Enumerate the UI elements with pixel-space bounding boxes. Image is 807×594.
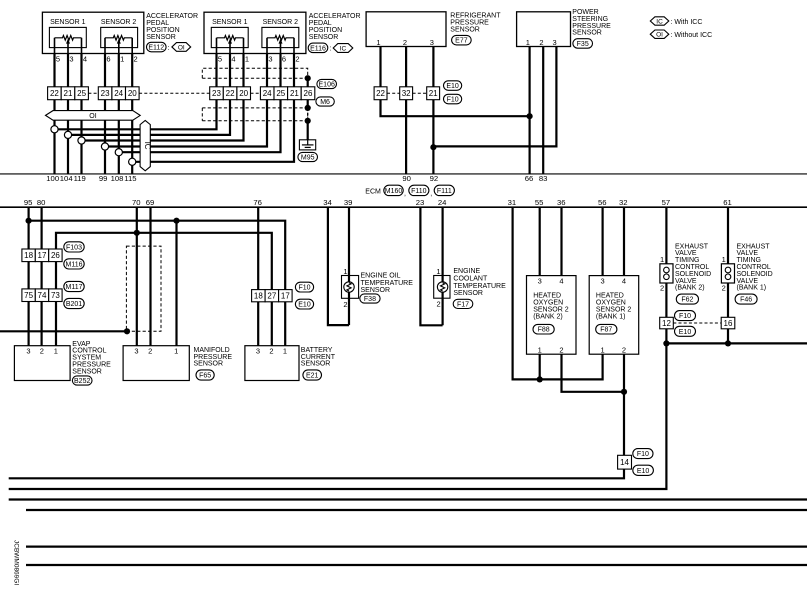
svg-text:80: 80 xyxy=(37,198,46,207)
wire ECM 31 to HO2S ground xyxy=(513,207,603,379)
svg-text:32: 32 xyxy=(619,198,628,207)
wire ECM 36 to F88 pin 4 xyxy=(560,207,562,275)
svg-text:26: 26 xyxy=(304,89,313,98)
svg-text:F17: F17 xyxy=(457,301,469,308)
wire E116 pin 2 via splice to ECM xyxy=(132,54,294,162)
svg-text:3: 3 xyxy=(601,277,605,286)
wire ECM 69 to manifold pin 2 xyxy=(149,207,151,346)
variant tag OI at E112 xyxy=(172,43,191,52)
label ECM connector refs xyxy=(365,185,454,197)
wire F87 pin 2 to connector 14 and bottom bus xyxy=(9,354,624,478)
svg-text:4: 4 xyxy=(622,277,626,286)
junction dot node A at manifold pin 1 xyxy=(173,218,179,224)
legend OI without ICC xyxy=(650,30,712,39)
connector ref F17 oval xyxy=(453,299,473,308)
label POWER STEERING PRESSURE SENSOR xyxy=(572,9,611,36)
svg-text:2: 2 xyxy=(722,283,726,292)
wire E112 pin 3 to ECM 104 xyxy=(67,54,69,174)
svg-text:66: 66 xyxy=(525,174,534,183)
svg-text:SENSOR: SENSOR xyxy=(301,361,331,368)
splice circle on wire to ECM 119 xyxy=(78,137,85,144)
accelerator pedal position sensor E112 xyxy=(42,12,143,53)
svg-text:31: 31 xyxy=(508,198,517,207)
svg-text:E116: E116 xyxy=(310,45,326,52)
splice circle on wire to ECM 99 xyxy=(101,143,108,150)
svg-text:JCBWM0869GI: JCBWM0869GI xyxy=(13,540,20,585)
svg-text:F10: F10 xyxy=(637,451,649,458)
svg-text:36: 36 xyxy=(557,198,566,207)
svg-text:F110: F110 xyxy=(411,188,427,195)
connector 12 xyxy=(660,317,674,329)
heated oxygen sensor 2 bank 2 F88 xyxy=(527,276,577,355)
svg-text:3: 3 xyxy=(553,38,557,47)
wire ECM 34 to F38 pin 2 xyxy=(328,207,349,325)
dashed link E77 22-32 xyxy=(387,92,400,94)
svg-text:E77: E77 xyxy=(455,38,468,45)
svg-text:21: 21 xyxy=(290,89,299,98)
svg-text:OI: OI xyxy=(89,113,96,120)
dashed link E77 32-21 xyxy=(413,92,427,94)
wire E116 pin 6 via splice to ECM xyxy=(119,54,281,153)
ECM lower row line xyxy=(0,206,807,208)
svg-text:27: 27 xyxy=(267,292,276,301)
connector ref F10 oval (E77) xyxy=(444,94,462,104)
wire E112 pin 5 to ECM 100 xyxy=(53,54,55,174)
wire ECM 39 through F38 pin 1 xyxy=(348,207,350,325)
svg-text:18: 18 xyxy=(24,251,33,260)
potentiometer E112 sensor 2 xyxy=(105,36,132,54)
wire ECM 32 to F87 pin 4 xyxy=(623,207,625,275)
wire F35 pin 2 to ECM 83 xyxy=(542,47,544,174)
wire E77 pin 2 to ECM 90 xyxy=(405,47,407,174)
svg-text:56: 56 xyxy=(598,198,607,207)
wire E116 pin 5 via splice to ECM xyxy=(55,54,217,130)
potentiometer E116 sensor 2 xyxy=(267,36,294,54)
svg-text:M160: M160 xyxy=(385,188,403,195)
svg-text:IC: IC xyxy=(143,142,152,150)
svg-text:E10: E10 xyxy=(679,329,692,336)
svg-text:E112: E112 xyxy=(148,45,164,52)
svg-text:108: 108 xyxy=(111,174,124,183)
connector ref F46 oval xyxy=(735,294,757,304)
connector ref F38 oval xyxy=(360,294,380,303)
svg-text:1: 1 xyxy=(376,38,380,47)
svg-text:F10: F10 xyxy=(447,97,459,104)
wire E112 pin 4 to ECM 119 xyxy=(80,54,82,174)
connector ref F10 oval (12) xyxy=(675,311,696,321)
svg-text:M117: M117 xyxy=(66,284,83,291)
svg-text:25: 25 xyxy=(276,89,285,98)
wire E116 pin 1 via splice to ECM xyxy=(82,54,244,141)
svg-text:COOLANT: COOLANT xyxy=(453,276,488,283)
junction dot node B at 70 xyxy=(134,230,140,236)
svg-text:3: 3 xyxy=(538,277,542,286)
svg-text:ECM: ECM xyxy=(365,188,381,195)
diagram id JCBWM0869GI xyxy=(13,540,20,585)
svg-text:F10: F10 xyxy=(679,313,691,320)
svg-text:E10: E10 xyxy=(298,302,311,309)
svg-text:2: 2 xyxy=(148,346,152,355)
label ECM lower pins xyxy=(24,198,732,207)
label E112 pins 5 3 4 6 1 2 xyxy=(56,54,138,63)
connector ref E10 oval (14) xyxy=(633,465,654,475)
engine coolant temperature sensor F17 xyxy=(434,267,450,309)
engine oil temperature sensor F38 xyxy=(342,267,359,309)
wire ECM 57 to F62 and junction xyxy=(665,207,667,343)
dashed option harness box 2 (M6) xyxy=(202,108,307,121)
svg-text:32: 32 xyxy=(402,89,411,98)
svg-text:SENSOR 1: SENSOR 1 xyxy=(50,19,86,26)
svg-text:: With ICC: : With ICC xyxy=(671,19,703,26)
connector ref M117 oval xyxy=(64,281,84,291)
potentiometer E116 sensor 1 xyxy=(217,36,244,54)
variant tag IC at E116 xyxy=(333,44,353,53)
wire F88 pin 1 down xyxy=(539,354,541,379)
label EVAP CONTROL SYSTEM PRESSURE SENSOR xyxy=(72,341,111,376)
svg-text:17: 17 xyxy=(281,292,290,301)
exhaust valve timing control solenoid valve bank 2 F62 xyxy=(660,255,673,293)
connector ref E10 oval (battery) xyxy=(295,299,313,309)
svg-text:,: , xyxy=(430,190,432,197)
svg-text:1: 1 xyxy=(601,345,605,354)
wire E112 pin 2 to ECM 115 xyxy=(131,54,133,174)
svg-text:18: 18 xyxy=(254,292,263,301)
svg-text:SENSOR: SENSOR xyxy=(72,368,102,375)
variant band IC xyxy=(140,120,152,170)
svg-text:2: 2 xyxy=(295,54,299,63)
svg-text:21: 21 xyxy=(429,89,438,98)
junction dot M6 harness upper xyxy=(305,105,311,111)
svg-text:F111: F111 xyxy=(437,188,452,195)
svg-text:ENGINE: ENGINE xyxy=(453,268,480,275)
svg-text:104: 104 xyxy=(60,174,74,183)
svg-text:1: 1 xyxy=(54,346,58,355)
wire E112 pin 6 to ECM 99 xyxy=(104,54,106,174)
svg-text:SENSOR 1: SENSOR 1 xyxy=(212,19,248,26)
svg-text:(BANK 1): (BANK 1) xyxy=(596,313,626,320)
manifold pressure sensor F65 xyxy=(123,346,189,381)
svg-text:4: 4 xyxy=(83,54,87,63)
svg-text:3: 3 xyxy=(69,54,73,63)
junction dot E106 harness xyxy=(305,75,311,81)
svg-text:1: 1 xyxy=(660,255,664,264)
svg-text:F87: F87 xyxy=(600,327,612,334)
junction dot node A at 95 xyxy=(26,218,32,224)
connector row E116 24 25 21 26 xyxy=(260,87,314,100)
svg-text:3: 3 xyxy=(256,346,260,355)
svg-text:1: 1 xyxy=(343,267,347,276)
svg-text:2: 2 xyxy=(559,345,563,354)
label REFRIGERANT PRESSURE SENSOR xyxy=(450,12,501,33)
svg-text:ENGINE OIL: ENGINE OIL xyxy=(361,273,401,280)
svg-text:F10: F10 xyxy=(298,285,310,292)
svg-text:14: 14 xyxy=(620,458,629,467)
svg-text:22: 22 xyxy=(50,89,59,98)
svg-text:26: 26 xyxy=(51,251,60,260)
connector ref F65 oval xyxy=(196,370,214,380)
connector row EVAP 75 74 73 xyxy=(22,289,62,302)
wire junction to bottom bus xyxy=(9,343,667,489)
wire ECM 95 to EVAP pin 3 xyxy=(28,207,30,346)
splice circle on wire to ECM 104 xyxy=(64,131,71,138)
svg-text:83: 83 xyxy=(539,174,548,183)
connector ref E116 oval xyxy=(308,43,331,53)
junction dot solenoid bus at 57 xyxy=(663,340,669,346)
svg-text:F65: F65 xyxy=(199,373,211,380)
svg-text:75: 75 xyxy=(24,291,33,300)
wire ECM 55 to F88 pin 3 xyxy=(539,207,541,275)
wire node A to battery sensor pin 1 xyxy=(29,221,286,346)
connector row E112 23 24 20 xyxy=(98,87,139,100)
label ECM pins 100 104 119 99 108 115 xyxy=(46,174,136,183)
svg-text:B201: B201 xyxy=(66,301,82,308)
dashed connector link E116 xyxy=(251,92,261,94)
svg-text:SENSOR 2: SENSOR 2 xyxy=(263,19,299,26)
svg-text:2: 2 xyxy=(40,346,44,355)
svg-text:2: 2 xyxy=(660,283,664,292)
svg-text:3: 3 xyxy=(134,346,138,355)
EVAP control system pressure sensor B252 xyxy=(14,346,70,381)
splice circle on wire to ECM 115 xyxy=(129,158,136,165)
svg-text:73: 73 xyxy=(51,291,60,300)
wire ECM 56 to F87 pin 3 xyxy=(601,207,603,275)
svg-text:SENSOR: SENSOR xyxy=(450,26,480,33)
svg-text:3: 3 xyxy=(430,38,434,47)
junction dot HO2S heater ground xyxy=(621,389,627,395)
wire E77 pin 1 to node 66 xyxy=(381,47,530,117)
heated oxygen sensor 2 bank 1 F87 xyxy=(589,276,639,355)
svg-text:(BANK 2): (BANK 2) xyxy=(533,313,563,320)
label ENGINE COOLANT TEMPERATURE SENSOR xyxy=(453,268,506,297)
svg-text:119: 119 xyxy=(74,174,86,183)
junction dot node 92 xyxy=(430,144,436,150)
wire E77 pin 3 to ECM 92 xyxy=(432,47,434,174)
svg-text:95: 95 xyxy=(24,198,33,207)
svg-text:F62: F62 xyxy=(681,297,693,304)
junction dot M6 harness lower xyxy=(305,118,311,124)
svg-text:24: 24 xyxy=(263,89,272,98)
splice circle on wire to ECM 108 xyxy=(115,149,122,156)
svg-text:OI: OI xyxy=(178,44,185,51)
svg-text:B252: B252 xyxy=(74,378,90,385)
svg-text:F38: F38 xyxy=(364,296,376,303)
svg-text:2: 2 xyxy=(343,300,347,309)
svg-text:M95: M95 xyxy=(301,155,315,162)
svg-text:PEDAL: PEDAL xyxy=(146,20,169,27)
svg-text::: : xyxy=(329,46,331,53)
svg-text:61: 61 xyxy=(723,198,732,207)
svg-text:23: 23 xyxy=(101,89,110,98)
svg-text:22: 22 xyxy=(226,89,235,98)
svg-text:SENSOR: SENSOR xyxy=(572,30,602,37)
svg-text:17: 17 xyxy=(38,251,47,260)
junction dot solenoid bus at 61 xyxy=(725,340,731,346)
potentiometer E112 sensor 1 xyxy=(55,36,82,54)
svg-text:5: 5 xyxy=(218,54,222,63)
wire E112 pin 1 to ECM 108 xyxy=(118,54,120,174)
dashed connector link E112 xyxy=(88,92,98,94)
svg-text:4: 4 xyxy=(231,54,235,63)
junction dot at option box xyxy=(124,328,130,334)
svg-text:34: 34 xyxy=(323,198,332,207)
svg-text:IC: IC xyxy=(656,18,663,25)
svg-text:90: 90 xyxy=(402,174,411,183)
dashed option harness box 1 (E106) xyxy=(202,68,307,78)
label MANIFOLD PRESSURE SENSOR xyxy=(194,347,233,368)
svg-text:ACCELERATOR: ACCELERATOR xyxy=(146,13,198,20)
power steering pressure sensor F35 xyxy=(517,12,571,47)
wire ECM 23 to F17 pin 2 xyxy=(420,207,442,325)
variant band OI xyxy=(46,111,141,121)
svg-text:2: 2 xyxy=(269,346,273,355)
label ECM pins 90 92 66 83 xyxy=(402,174,547,183)
wire F35 pin 3 to node 92 xyxy=(433,47,556,147)
label ACCELERATOR PEDAL POSITION SENSOR (E112) xyxy=(146,13,198,41)
connector ref E21 oval xyxy=(303,370,322,380)
svg-text:SENSOR: SENSOR xyxy=(194,361,224,368)
svg-text:76: 76 xyxy=(253,198,262,207)
refrigerant pressure sensor E77 xyxy=(366,12,446,47)
svg-text:1: 1 xyxy=(722,255,726,264)
svg-text:3: 3 xyxy=(26,346,30,355)
connector 14 xyxy=(618,455,632,469)
svg-text:E21: E21 xyxy=(306,373,319,380)
svg-text:57: 57 xyxy=(662,198,671,207)
connector row battery 18 27 17 xyxy=(252,290,293,302)
svg-text:115: 115 xyxy=(124,174,136,183)
label EXHAUST VALVE TIMING CONTROL SOLENOID VALVE (BANK 1) xyxy=(737,243,773,291)
svg-text:100: 100 xyxy=(46,174,59,183)
svg-text:2: 2 xyxy=(539,38,543,47)
splice circle on wire to ECM 100 xyxy=(51,126,58,133)
svg-text:55: 55 xyxy=(535,198,544,207)
svg-text:: Without ICC: : Without ICC xyxy=(671,32,713,39)
svg-text:12: 12 xyxy=(662,319,671,328)
connector ref F10 oval (battery) xyxy=(295,282,313,292)
connector ref B252 oval xyxy=(72,376,92,385)
connector 16 xyxy=(721,317,735,329)
svg-text:PEDAL: PEDAL xyxy=(309,20,332,27)
wire ECM 76 to battery sensor pin 3 xyxy=(257,207,259,346)
svg-text:1: 1 xyxy=(174,346,178,355)
connector row E77 22 32 21 xyxy=(374,87,440,100)
label E116 pins 5 4 1 3 6 2 xyxy=(218,54,300,63)
svg-text:92: 92 xyxy=(430,174,439,183)
svg-text:TEMPERATURE: TEMPERATURE xyxy=(361,280,414,287)
wire bottom bus F xyxy=(26,564,807,566)
svg-text:2: 2 xyxy=(134,54,138,63)
wire ECM 70 to manifold pin 3 xyxy=(136,207,138,346)
wire node A to manifold pin 1 xyxy=(175,221,177,346)
svg-text:3: 3 xyxy=(268,54,272,63)
svg-text:TEMPERATURE: TEMPERATURE xyxy=(453,283,506,290)
svg-text:M116: M116 xyxy=(66,261,83,268)
svg-text:24: 24 xyxy=(114,89,123,98)
dashed link E112 to E116 xyxy=(139,92,210,94)
wire bottom bus D xyxy=(26,509,807,511)
wire ECM 61 to F46 and junction xyxy=(727,207,729,343)
wire EVAP pin 1 to battery sensor pin 2 xyxy=(56,233,272,346)
svg-text:1: 1 xyxy=(245,54,249,63)
label EXHAUST VALVE TIMING CONTROL SOLENOID VALVE (BANK 2) xyxy=(675,243,711,291)
wire F88 pin 2 to F87 pin 2 xyxy=(562,354,625,392)
svg-text:,: , xyxy=(404,190,406,197)
svg-text:2: 2 xyxy=(622,345,626,354)
svg-text:6: 6 xyxy=(106,54,110,63)
svg-text:16: 16 xyxy=(724,319,733,328)
connector row E116 23 22 20 xyxy=(210,87,251,100)
ECM boundary line xyxy=(0,173,807,175)
svg-text:70: 70 xyxy=(132,198,141,207)
svg-text:2: 2 xyxy=(437,300,441,309)
wire ECM 80 to EVAP pin 2 xyxy=(40,207,42,346)
svg-text:SENSOR: SENSOR xyxy=(146,34,176,41)
svg-text:23: 23 xyxy=(416,198,425,207)
label ACCELERATOR PEDAL POSITION SENSOR (E116) xyxy=(309,13,361,41)
svg-text:E10: E10 xyxy=(446,83,459,90)
svg-text:OI: OI xyxy=(656,32,663,39)
connector ref E10 oval (12) xyxy=(675,326,696,336)
svg-text:POSITION: POSITION xyxy=(146,27,179,34)
connector ref F88 oval xyxy=(533,324,554,334)
legend IC with ICC xyxy=(650,17,702,26)
connector ref E77 oval xyxy=(452,35,472,45)
svg-text:21: 21 xyxy=(64,89,73,98)
connector row EVAP 18 17 26 xyxy=(22,249,62,262)
wire E116 connector 26 to ground M95 xyxy=(307,76,309,140)
svg-text:SENSOR: SENSOR xyxy=(453,290,483,297)
wire bottom bus E xyxy=(26,545,807,547)
connector ref M95 oval xyxy=(298,152,318,161)
wire E116 pin 4 via splice to ECM xyxy=(68,54,230,135)
svg-text:SENSOR 2: SENSOR 2 xyxy=(101,19,137,26)
connector ref F103 oval xyxy=(64,242,84,252)
connector row E112 22 21 25 xyxy=(48,87,89,100)
connector ref M116 oval xyxy=(64,259,84,269)
svg-text:ACCELERATOR: ACCELERATOR xyxy=(309,13,361,20)
connector ref F10 oval (14) xyxy=(633,449,653,459)
svg-text:99: 99 xyxy=(99,174,108,183)
svg-text:PRESSURE: PRESSURE xyxy=(450,19,489,26)
svg-text:IC: IC xyxy=(340,45,347,52)
svg-text:24: 24 xyxy=(438,198,447,207)
connector ref F87 oval xyxy=(596,324,617,334)
wire F35 pin 1 to ECM 66 xyxy=(528,47,530,174)
label BATTERY CURRENT SENSOR xyxy=(301,347,336,368)
wire bottom bus C xyxy=(9,498,807,500)
svg-text:5: 5 xyxy=(56,54,60,63)
svg-text:1: 1 xyxy=(120,54,124,63)
accelerator pedal position sensor E116 xyxy=(204,12,306,53)
connector ref M6 oval xyxy=(316,97,334,106)
wire ECM 24 through F17 pin 1 xyxy=(442,207,444,325)
svg-text:22: 22 xyxy=(376,89,385,98)
junction dot HO2S ground xyxy=(537,376,543,382)
svg-text:E106: E106 xyxy=(319,82,335,89)
label ENGINE OIL TEMPERATURE SENSOR xyxy=(361,273,414,295)
svg-text:20: 20 xyxy=(239,89,248,98)
connector ref E112 oval xyxy=(147,42,170,52)
dashed link 12 to 16 xyxy=(673,322,721,324)
svg-text:20: 20 xyxy=(128,89,137,98)
connector ref F62 oval xyxy=(676,294,698,304)
connector ref E106 oval xyxy=(317,79,337,88)
svg-text:1: 1 xyxy=(538,345,542,354)
dashed option harness box at manifold xyxy=(126,246,161,331)
svg-text:39: 39 xyxy=(344,198,353,207)
svg-text:1: 1 xyxy=(436,267,440,276)
svg-text:REFRIGERANT: REFRIGERANT xyxy=(450,12,501,19)
